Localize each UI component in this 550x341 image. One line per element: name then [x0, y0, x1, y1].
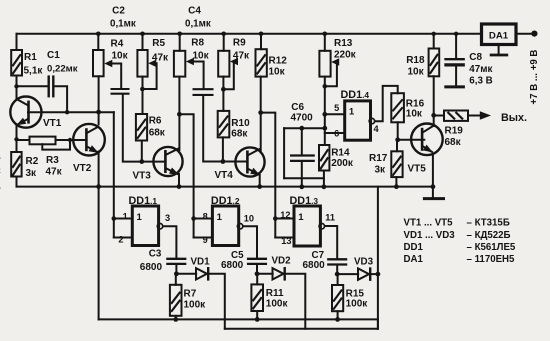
- resistor R2: [11, 152, 21, 177]
- svg-text:DD1.2: DD1.2: [211, 195, 240, 207]
- wire R1 to VT1 collector: [16, 76, 18, 100]
- wire DD1.1 pin1 lead: [114, 218, 133, 220]
- wire C5 bottom lead: [256, 266, 258, 274]
- svg-text:3: 3: [165, 213, 170, 223]
- svg-text:VD3: VD3: [354, 256, 374, 267]
- trimmer R4 wiper: [104, 60, 112, 67]
- wire DD1.2 input tie: [193, 219, 195, 238]
- wire DD1.1 output to C3: [163, 226, 176, 257]
- svg-text:11: 11: [325, 213, 335, 223]
- capacitor C2: [111, 89, 130, 94]
- svg-text:4700: 4700: [291, 113, 314, 124]
- trimmer R8 wiper: [186, 58, 194, 65]
- svg-text:12: 12: [280, 210, 290, 220]
- resistor R19: [444, 111, 468, 121]
- svg-text:47к: 47к: [152, 53, 169, 64]
- wire R7 top lead: [175, 274, 177, 285]
- wire C1 left lead: [17, 85, 48, 87]
- svg-text:DA1: DA1: [489, 31, 509, 42]
- svg-text:R15: R15: [346, 288, 365, 299]
- wire stage2 node to DD1.2 inputs: [179, 114, 193, 218]
- junction rail R4: [96, 32, 101, 37]
- wire R9 to R10: [222, 77, 224, 111]
- svg-text:200к: 200к: [331, 158, 354, 169]
- svg-text:R17: R17: [369, 153, 388, 164]
- resistor R3: [30, 137, 56, 145]
- svg-text:1: 1: [137, 212, 143, 223]
- resistor R15: [332, 285, 343, 311]
- wire R18 top lead: [433, 34, 435, 49]
- wire R17 bottom lead: [395, 177, 397, 187]
- svg-text:220к: 220к: [334, 49, 357, 60]
- wire C4 to VT4 base: [203, 96, 247, 162]
- svg-text:R9: R9: [233, 38, 246, 49]
- wire R10 bottom lead: [222, 137, 224, 161]
- ground bar below DA1: [490, 54, 509, 57]
- ground symbol below VT5: [423, 197, 445, 200]
- wire C8 bottom lead: [455, 68, 457, 86]
- svg-text:VD2: VD2: [272, 256, 292, 267]
- wire DD1.4 pin6 lead: [325, 132, 345, 134]
- node R3 tap / VT2 base wire: [68, 138, 72, 142]
- node VT1 emitter / R3: [14, 137, 18, 141]
- junction rail R5: [140, 32, 145, 37]
- capacitor C8 (electrolytic): [444, 59, 465, 65]
- svg-text:47мк: 47мк: [469, 64, 492, 75]
- svg-text:5,1к: 5,1к: [24, 65, 44, 76]
- capacitor C5: [247, 259, 267, 264]
- node R15 bottom rail: [335, 317, 340, 322]
- svg-text:– КТ315Б: – КТ315Б: [467, 218, 510, 229]
- diode VD3: [358, 267, 370, 281]
- node DD1.1 inputs: [112, 216, 117, 221]
- svg-text:R19: R19: [445, 125, 464, 136]
- node VT3 emitter on ground line: [177, 184, 182, 189]
- wire R12 top lead: [260, 34, 262, 49]
- wire VD cathode vertical: [377, 187, 379, 329]
- wire R12 bottom to VT4 collector: [260, 77, 262, 153]
- NOR gate DD1.1: [132, 206, 162, 246]
- node C1 / VT1 base wire: [65, 110, 69, 114]
- resistor R5 (trimmer): [137, 50, 147, 77]
- wire R8 bottom to VT3 collector: [178, 77, 180, 151]
- junction rail R12: [259, 32, 264, 37]
- wire C1 right lead: [54, 86, 67, 112]
- wire R11 top lead: [256, 274, 258, 285]
- node VT2 collector / R4: [96, 110, 101, 115]
- svg-text:R14: R14: [331, 147, 350, 158]
- svg-text:10: 10: [244, 213, 254, 223]
- svg-text:R18: R18: [406, 55, 425, 66]
- wire VT5 base lead: [398, 139, 425, 141]
- node R10 bottom / VT4 base: [221, 159, 226, 164]
- svg-text:R3: R3: [46, 155, 59, 166]
- voltage regulator DA1: [482, 24, 517, 45]
- wire VD2 cathode wire: [285, 274, 305, 329]
- wire C6 top wire: [284, 127, 325, 129]
- wire R14 bottom lead: [323, 171, 325, 188]
- resistor R7: [170, 285, 182, 316]
- transistor VT1: [10, 97, 41, 128]
- node R11 bottom rail: [255, 317, 260, 322]
- node DD1.3 inputs: [273, 216, 278, 221]
- wire VT4 emitter down: [259, 175, 261, 187]
- diode VD2: [273, 267, 285, 281]
- svg-text:VT4: VT4: [215, 170, 234, 181]
- node C6 top lead: [299, 126, 304, 131]
- wire DD1.2 pin9 lead: [194, 237, 213, 239]
- wire DD1.3 pin13 lead: [275, 237, 294, 239]
- svg-text:R6: R6: [149, 116, 162, 127]
- svg-text:VT1 ... VT5: VT1 ... VT5: [404, 218, 454, 229]
- svg-text:3к: 3к: [26, 168, 38, 179]
- svg-text:1: 1: [217, 212, 223, 223]
- svg-text:10к: 10к: [406, 108, 423, 119]
- transistor VT4: [235, 147, 264, 176]
- svg-text:C1: C1: [47, 50, 60, 61]
- node VT5 emitter / ground line end: [431, 184, 436, 189]
- resistor R12: [256, 49, 267, 76]
- resistor R14: [319, 145, 329, 171]
- wire R5 top lead: [142, 34, 144, 50]
- svg-text:C6: C6: [291, 102, 304, 113]
- svg-text:R7: R7: [184, 288, 197, 299]
- resistor R1: [11, 50, 22, 76]
- svg-text:C8: C8: [469, 52, 482, 63]
- wire R4 bottom to VT2 collector: [98, 76, 100, 124]
- wire R11 bottom lead: [256, 311, 258, 319]
- wire VT1 emitter node to R3: [17, 139, 30, 141]
- wire DD1.1 input tie: [113, 219, 115, 238]
- wire R2 to ground line: [16, 177, 18, 187]
- svg-text:68к: 68к: [231, 129, 248, 140]
- svg-text:R11: R11: [266, 288, 284, 299]
- svg-text:100к: 100к: [266, 299, 289, 310]
- junction rail R9: [221, 32, 226, 37]
- wire R13 bottom lead: [324, 77, 326, 145]
- svg-text:3к: 3к: [375, 165, 387, 176]
- svg-text:68к: 68к: [149, 127, 166, 138]
- svg-text:9: 9: [203, 235, 208, 245]
- svg-text:68к: 68к: [445, 137, 462, 148]
- wire diode cathode rail: [225, 328, 378, 330]
- junction rail C8: [454, 32, 458, 36]
- svg-text:1: 1: [298, 212, 304, 223]
- wire R13 wiper tie: [325, 62, 337, 86]
- capacitor C3: [166, 259, 186, 264]
- svg-text:– 1170ЕН5: – 1170ЕН5: [467, 254, 516, 265]
- node DD1.2 inputs: [191, 216, 196, 221]
- resistor R8 (trimmer): [174, 51, 185, 77]
- wire R4 wiper to C2: [120, 64, 122, 89]
- NOR gate DD1.3: [294, 206, 324, 246]
- wire DD1.2 output to C5: [244, 226, 257, 257]
- wire R14 bottom wire: [284, 177, 324, 179]
- node R5 wiper tie: [140, 87, 145, 92]
- resistor R18: [429, 49, 440, 77]
- svg-text:5: 5: [334, 103, 339, 113]
- wire R9 top lead: [223, 34, 225, 51]
- wire R5 wiper tie: [142, 63, 156, 89]
- wire R15 top lead: [337, 274, 339, 285]
- wire C2 to VT3 base: [123, 95, 166, 162]
- junction rail R18: [432, 32, 436, 36]
- wire R6 bottom lead: [141, 141, 143, 162]
- transistor VT2: [73, 124, 105, 156]
- wire VT1 emitter to R2: [16, 126, 18, 153]
- transistor VT3: [153, 147, 182, 176]
- node C6 bottom on ground line: [299, 184, 304, 189]
- wire R3 right lead to VT2 base: [56, 139, 87, 141]
- output arrow Vykh: [480, 111, 491, 120]
- resistor R13 (trimmer): [319, 51, 330, 77]
- svg-text:R10: R10: [231, 118, 250, 129]
- wire R17 top lead: [396, 140, 398, 152]
- svg-text:VD1: VD1: [191, 256, 211, 267]
- svg-text:10к: 10к: [408, 66, 425, 77]
- terminal +7..9V: [531, 30, 537, 36]
- wire stage1 node down to DD1.1 inputs: [113, 112, 115, 218]
- wire VT1 base to VT2 collector node: [28, 111, 114, 113]
- wire VD3 anode wire: [337, 273, 358, 275]
- svg-text:6800: 6800: [221, 260, 244, 271]
- svg-text:VT5: VT5: [408, 164, 427, 175]
- NOR gate DD1.2: [212, 206, 242, 246]
- svg-text:47к: 47к: [46, 167, 63, 178]
- junction rail R8: [177, 32, 182, 37]
- svg-text:1: 1: [123, 211, 128, 221]
- trimmer R9 wiper: [230, 58, 238, 65]
- svg-text:C2: C2: [112, 5, 125, 16]
- wire VD2 anode wire: [257, 273, 273, 275]
- svg-text:VT3: VT3: [133, 171, 152, 182]
- node C7 / VD3 / R15: [335, 272, 340, 277]
- wire DA1 ground lead: [498, 45, 500, 53]
- svg-text:2: 2: [118, 235, 123, 245]
- trimmer R5 wiper: [148, 60, 156, 67]
- svg-text:– КД522Б: – КД522Б: [467, 230, 511, 241]
- wire C3 bottom lead: [175, 266, 177, 274]
- wire R19 left lead: [434, 115, 444, 117]
- svg-text:1: 1: [349, 107, 355, 118]
- wire C7 bottom lead: [336, 266, 338, 274]
- node R6 bottom / VT3 base: [139, 159, 144, 164]
- svg-text:6800: 6800: [140, 262, 163, 273]
- node R14 bottom on ground line: [322, 184, 327, 189]
- node C5 / VD2 / R11: [255, 271, 260, 276]
- wire VT5 emitter down: [432, 154, 434, 198]
- wire R19 right lead to output: [468, 115, 480, 117]
- wire DD1.3 input tie: [274, 219, 276, 238]
- svg-text:DD1.4: DD1.4: [341, 89, 370, 101]
- wire R13 top lead: [324, 34, 326, 51]
- wire DD1.3 output to C7: [325, 226, 337, 258]
- svg-text:R4: R4: [111, 38, 124, 49]
- svg-text:8: 8: [203, 211, 208, 221]
- svg-text:10к: 10к: [112, 51, 129, 62]
- transistor VT5: [411, 124, 443, 156]
- resistor R6: [136, 114, 147, 141]
- svg-text:C4: C4: [188, 5, 201, 16]
- svg-text:6,3 В: 6,3 В: [469, 76, 492, 87]
- wire C6 top lead: [301, 128, 303, 154]
- wire R4 top lead: [97, 34, 99, 50]
- svg-text:6: 6: [334, 129, 339, 139]
- svg-text:R13: R13: [334, 38, 353, 49]
- wire bottom ground rail: [99, 318, 378, 320]
- svg-text:R8: R8: [191, 38, 204, 49]
- svg-text:R2: R2: [26, 156, 39, 167]
- wire VD1 anode wire: [176, 273, 196, 275]
- wire R8 top lead: [179, 34, 181, 51]
- wire VD1 cathode wire: [209, 274, 225, 329]
- svg-text:10к: 10к: [193, 50, 210, 61]
- wire top supply rail: [17, 33, 481, 35]
- wire R3 bottom tap: [42, 140, 70, 150]
- resistor R17: [391, 151, 402, 177]
- wire ground line: [17, 186, 434, 188]
- wire R18 bottom to VT5 collector: [433, 76, 435, 126]
- svg-text:VD1 ... VD3: VD1 ... VD3: [404, 230, 456, 241]
- node VT3 collector: [177, 112, 182, 117]
- wire VT2 emitter down: [98, 152, 100, 320]
- wire stage3 node to DD1.3 inputs: [261, 113, 276, 219]
- wire rail DA1 to terminal: [517, 33, 532, 35]
- node R13 wiper tie: [323, 84, 328, 89]
- diode VD1: [196, 267, 208, 281]
- node VD cathodes rail: [376, 272, 381, 277]
- capacitor C7: [327, 259, 347, 264]
- svg-text:Вых.: Вых.: [501, 112, 527, 124]
- svg-text:13: 13: [281, 236, 291, 246]
- wire DD1.2 pin8 lead: [194, 218, 213, 220]
- capacitor C1: [49, 75, 54, 97]
- node R7 bottom rail: [173, 317, 178, 322]
- wire R15 bottom lead: [337, 311, 339, 319]
- svg-text:R12: R12: [269, 55, 288, 66]
- wire R9 wiper tie: [223, 62, 233, 90]
- resistor R9 (trimmer): [218, 51, 229, 77]
- svg-text:R1: R1: [24, 52, 37, 63]
- node VT5 base divider: [395, 137, 400, 142]
- svg-text:0,22мк: 0,22мк: [47, 64, 78, 75]
- svg-text:47к: 47к: [233, 50, 250, 61]
- node VT5 collector / R19: [431, 113, 436, 118]
- svg-text:+7 В ... +9 В: +7 В ... +9 В: [529, 50, 540, 105]
- svg-text:6800: 6800: [303, 260, 326, 271]
- node VT4 collector: [258, 110, 263, 115]
- capacitor C6: [290, 156, 315, 161]
- svg-text:0,1мк: 0,1мк: [110, 18, 136, 29]
- wire C6 bottom lead: [301, 162, 303, 187]
- svg-text:– К561ЛЕ5: – К561ЛЕ5: [467, 242, 516, 253]
- node C6 top wire: [322, 126, 327, 131]
- svg-text:100к: 100к: [184, 300, 207, 311]
- wire R16 to VT5 base node: [397, 122, 399, 140]
- wire DD1.4 output to R16: [376, 86, 398, 121]
- wire DD1.3 pin12 lead: [275, 218, 294, 220]
- NOR gate DD1.4: [345, 101, 375, 140]
- resistor R16: [391, 93, 404, 122]
- wire R5 to R6: [142, 77, 144, 114]
- wire C6 left branch down: [283, 128, 285, 178]
- junction rail R13: [323, 32, 328, 37]
- node R1-C1 tap: [14, 84, 18, 88]
- trimmer R13 wiper: [331, 58, 339, 65]
- node C3 / VD1 / R7: [174, 271, 179, 276]
- capacitor C4: [193, 89, 214, 95]
- svg-text:100к: 100к: [346, 299, 369, 310]
- wire DD1.4 pin5 lead: [325, 113, 345, 115]
- wire VT3 emitter down: [178, 174, 180, 187]
- resistor R10: [218, 111, 230, 137]
- svg-text:VT1: VT1: [43, 118, 62, 129]
- svg-text:10к: 10к: [269, 67, 286, 78]
- node R17 bottom on ground line: [394, 184, 399, 189]
- svg-text:DD1: DD1: [404, 242, 424, 253]
- wire ground rail corner: [377, 319, 379, 328]
- wire R8 wiper to C4: [203, 62, 205, 89]
- svg-text:DD1.3: DD1.3: [290, 195, 319, 207]
- svg-text:DD1.1: DD1.1: [129, 195, 158, 207]
- wire DD1.1 pin2 lead: [114, 237, 133, 239]
- svg-text:VT2: VT2: [73, 163, 92, 174]
- node R9 wiper tie: [221, 87, 226, 92]
- svg-text:4: 4: [374, 124, 380, 134]
- node VT4 emitter on ground line: [257, 184, 262, 189]
- resistor R11: [251, 284, 263, 311]
- svg-text:R5: R5: [152, 38, 165, 49]
- svg-text:C3: C3: [149, 249, 162, 260]
- wire R7 bottom lead: [175, 316, 177, 320]
- ground bar below C8: [444, 85, 465, 88]
- svg-text:DA1: DA1: [404, 254, 424, 265]
- resistor R4 (trimmer): [93, 50, 104, 76]
- node DD1.4 pin5: [322, 112, 327, 117]
- wire C8 top lead: [455, 34, 457, 58]
- wire VD3 cathode wire: [370, 273, 378, 275]
- svg-text:0,1мк: 0,1мк: [185, 18, 211, 29]
- node VT2 emitter on ground line: [96, 184, 101, 189]
- wire left rail top: [16, 34, 18, 50]
